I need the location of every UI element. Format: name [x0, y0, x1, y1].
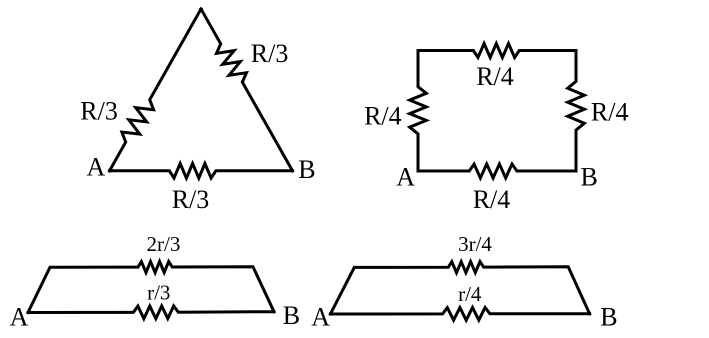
wire with resistor R/4 (left side of square) [410, 51, 427, 172]
wire with resistor R/4 (top side of square) [418, 44, 576, 58]
svg-text:R/3: R/3 [172, 185, 210, 214]
svg-text:A: A [87, 152, 106, 181]
svg-text:R/4: R/4 [591, 98, 629, 127]
wire A to apex with resistor R/3 (left side of triangle) [110, 9, 202, 171]
wire A to B with resistor R/4 (bottom side of square) [418, 164, 576, 178]
svg-text:R/4: R/4 [364, 102, 402, 131]
svg-text:B: B [600, 302, 617, 331]
wire A to B bottom branch with resistor r/4 (right trapezoid) [330, 308, 589, 321]
svg-text:R/3: R/3 [80, 97, 118, 126]
svg-text:B: B [283, 301, 300, 330]
wire A to B with resistor R/3 (bottom side of triangle) [110, 164, 293, 179]
svg-text:A: A [311, 302, 330, 331]
svg-text:r/3: r/3 [147, 281, 170, 305]
svg-text:R/3: R/3 [251, 39, 289, 68]
svg-text:r/4: r/4 [458, 282, 482, 306]
svg-text:3r/4: 3r/4 [458, 232, 492, 256]
svg-text:B: B [298, 155, 315, 184]
wire with resistor R/4 (right side of square) [568, 51, 585, 172]
svg-text:B: B [581, 163, 598, 192]
svg-text:A: A [10, 302, 29, 331]
svg-text:R/4: R/4 [476, 62, 514, 91]
wire A to B bottom branch with resistor r/3 (left trapezoid) [28, 306, 274, 319]
svg-text:A: A [396, 163, 415, 192]
wire apex to B with resistor R/3 (right side of triangle) [201, 9, 293, 171]
svg-text:2r/3: 2r/3 [147, 232, 181, 256]
wire A to B top branch with resistor 2r/3 (left trapezoid) [28, 262, 274, 313]
wire A to B top branch with resistor 3r/4 (right trapezoid) [330, 262, 589, 314]
svg-text:R/4: R/4 [473, 185, 511, 214]
